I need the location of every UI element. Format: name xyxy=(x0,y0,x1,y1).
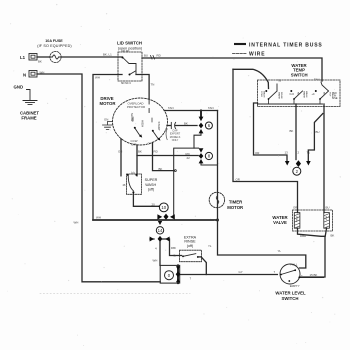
svg-text:DBr: DBr xyxy=(171,246,176,250)
svg-text:TB: TB xyxy=(278,79,282,83)
svg-text:20: 20 xyxy=(152,203,156,207)
svg-text:FULL: FULL xyxy=(290,262,297,266)
svg-text:TN: TN xyxy=(151,83,155,87)
svg-text:WATER LEVEL: WATER LEVEL xyxy=(275,291,306,296)
svg-text:RD: RD xyxy=(157,54,161,58)
svg-text:TIMER: TIMER xyxy=(229,199,243,204)
svg-text:HOT: HOT xyxy=(329,92,331,97)
svg-text:13: 13 xyxy=(285,150,289,154)
svg-text:BK: BK xyxy=(38,60,42,64)
svg-text:O-O: O-O xyxy=(289,93,294,96)
svg-text:COLD: COLD xyxy=(260,91,262,97)
svg-text:GND: GND xyxy=(14,85,24,90)
svg-text:BK, L1: BK, L1 xyxy=(103,53,112,57)
svg-text:SUPER: SUPER xyxy=(145,178,158,182)
svg-text:WIRE: WIRE xyxy=(249,52,265,58)
svg-text:WH: WH xyxy=(95,76,100,80)
svg-text:DIR: DIR xyxy=(132,143,137,147)
svg-text:LID SWITCH: LID SWITCH xyxy=(117,41,142,46)
svg-text:L1: L1 xyxy=(20,55,26,60)
svg-text:COLD: COLD xyxy=(295,216,297,222)
svg-text:WASH: WASH xyxy=(145,183,156,187)
svg-text:RINSE: RINSE xyxy=(280,92,282,99)
svg-text:WASH: WASH xyxy=(305,91,308,98)
svg-text:RD: RD xyxy=(154,150,158,154)
svg-text:USE: USE xyxy=(333,97,338,100)
svg-text:NO NC: NO NC xyxy=(122,50,130,53)
svg-text:MOTOR: MOTOR xyxy=(100,101,117,106)
svg-text:OR: OR xyxy=(118,150,122,154)
svg-text:INTERNAL TIMER BUSS: INTERNAL TIMER BUSS xyxy=(249,43,323,49)
svg-text:BK: BK xyxy=(290,129,294,133)
svg-text:WH: WH xyxy=(96,216,101,220)
svg-text:(IF SO EQUIPPED): (IF SO EQUIPPED) xyxy=(37,44,72,48)
svg-text:PROTECTOR: PROTECTOR xyxy=(127,105,145,109)
svg-text:OR: OR xyxy=(236,177,240,181)
svg-text:(off): (off) xyxy=(148,187,155,191)
svg-text:BU: BU xyxy=(316,130,320,134)
svg-text:SWITCH: SWITCH xyxy=(291,72,308,77)
svg-text:HIGH: HIGH xyxy=(141,120,145,127)
svg-text:BU: BU xyxy=(326,205,330,209)
svg-text:RINSE: RINSE xyxy=(184,240,196,244)
svg-text:YL: YL xyxy=(208,244,212,248)
svg-text:VALVE: VALVE xyxy=(273,220,287,225)
svg-text:Br: Br xyxy=(174,253,177,257)
svg-text:RD: RD xyxy=(297,92,299,96)
svg-text:+C: +C xyxy=(311,93,314,96)
svg-text:START: START xyxy=(157,122,161,131)
svg-text:T1: T1 xyxy=(307,150,311,154)
svg-text:WH: WH xyxy=(74,221,79,225)
svg-text:EMPTY: EMPTY xyxy=(290,284,300,288)
svg-text:BU: BU xyxy=(144,54,148,58)
svg-text:GN: GN xyxy=(104,118,108,122)
svg-text:MOTOR: MOTOR xyxy=(227,205,244,210)
svg-text:BK: BK xyxy=(314,273,318,277)
svg-text:YL: YL xyxy=(278,249,282,253)
svg-text:GY: GY xyxy=(239,270,243,274)
svg-text:BK: BK xyxy=(159,167,163,171)
svg-text:ONLY: ONLY xyxy=(172,139,179,142)
svg-text:WASH: WASH xyxy=(263,91,266,98)
svg-text:SWITCH: SWITCH xyxy=(282,296,299,301)
svg-text:(off): (off) xyxy=(187,244,194,248)
svg-text:N: N xyxy=(23,73,26,78)
svg-text:BU: BU xyxy=(323,92,325,95)
svg-text:WH: WH xyxy=(153,259,158,263)
svg-text:SLOW: SLOW xyxy=(130,113,134,122)
svg-text:BK: BK xyxy=(331,234,335,238)
svg-text:TAN: TAN xyxy=(208,106,214,110)
svg-text:14: 14 xyxy=(158,228,163,233)
svg-text:TAN: TAN xyxy=(314,78,320,82)
svg-text:22: 22 xyxy=(187,156,191,160)
svg-text:HOT: HOT xyxy=(325,216,327,221)
svg-text:NO NC C: NO NC C xyxy=(121,82,131,85)
svg-text:DBR: DBR xyxy=(300,234,306,238)
svg-text:OR: OR xyxy=(255,151,259,155)
svg-text:BK: BK xyxy=(138,150,142,154)
svg-text:OR: OR xyxy=(293,205,297,209)
svg-text:TAN: TAN xyxy=(168,106,174,110)
svg-text:⌐: ⌐ xyxy=(301,273,303,277)
svg-text:FRAME: FRAME xyxy=(21,115,36,120)
svg-text:BK: BK xyxy=(184,121,188,125)
svg-text:10A FUSE: 10A FUSE xyxy=(45,39,63,43)
svg-text:WH: WH xyxy=(40,71,45,75)
svg-text:10: 10 xyxy=(161,205,166,210)
svg-text:EXTRA: EXTRA xyxy=(184,235,197,239)
